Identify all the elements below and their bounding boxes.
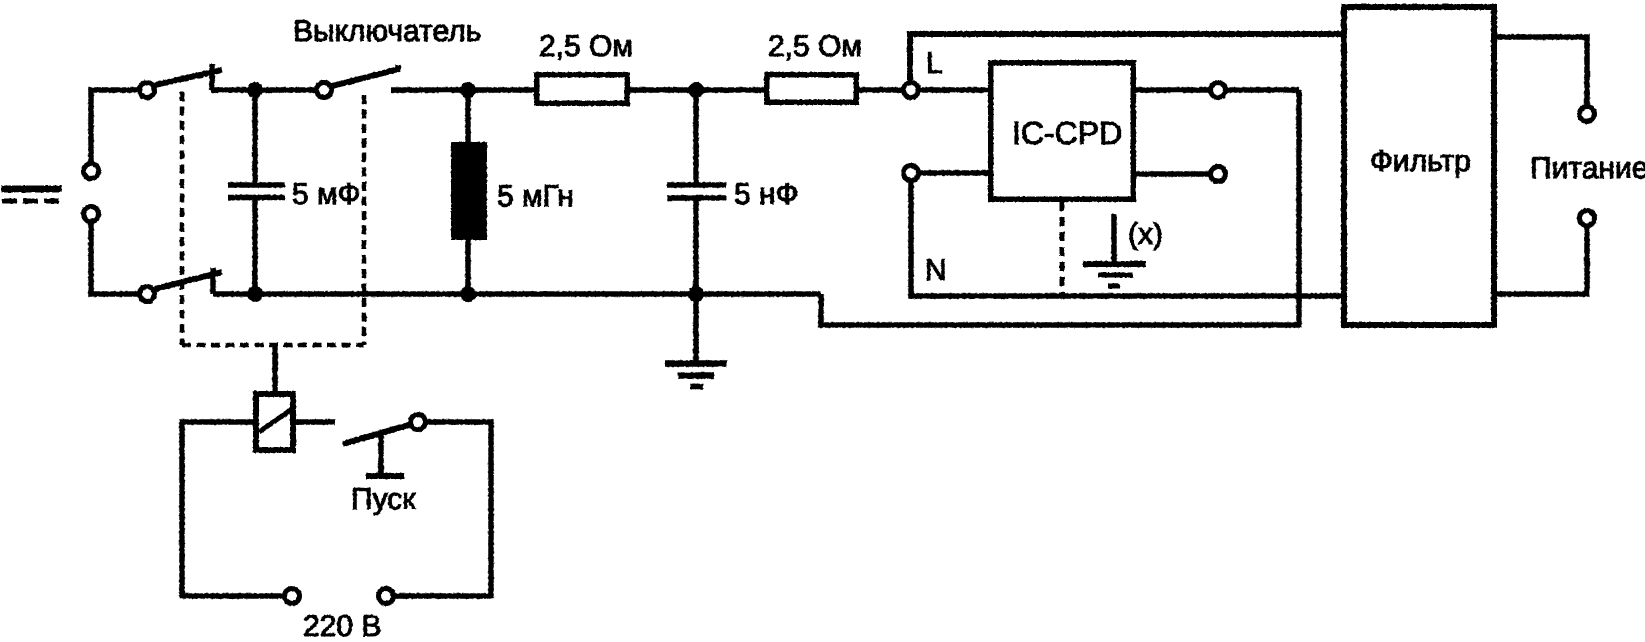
supply top terminal [84,164,99,179]
relay coil K1 diagonal [259,409,292,432]
resistor R1 2,5 Ом body [537,75,628,104]
Питание bottom terminal [1580,211,1595,226]
wire IC-CPD right top to corner [1136,87,1299,93]
switch S2 pivot [317,83,332,98]
junction node C1 top [247,82,263,98]
wire from bottom node to ground [693,294,699,361]
supply bottom terminal [84,207,99,222]
svg-text:220 В: 220 В [303,610,381,637]
switch S3 contact bar [210,268,216,294]
IC-CPD dashed line down [1060,202,1065,296]
wire node N to IC-CPD [911,170,988,176]
svg-text:Пуск: Пуск [351,483,416,516]
dashed enclosure box [182,92,364,345]
right terminal top [1211,83,1226,98]
svg-text:N: N [925,254,947,287]
switch S1 pivot [140,83,155,98]
filter block [1344,7,1494,325]
wire IC-CPD right bottom to terminal [1136,171,1218,177]
220V right terminal [379,589,394,604]
wire from supply top terminal to switch S1 [91,90,147,171]
junction node L1 top [460,82,476,98]
switch S3 pivot [140,287,155,302]
open terminal circles [84,83,1595,604]
node N terminal [904,166,919,181]
DC source symbol [1,189,62,201]
wire Пуск to right side down to 220V [386,422,491,596]
junction node L1 bottom [460,286,476,302]
relay circuit left wire [182,422,292,596]
wire from S1 to switch S2 (Выключатель) [211,87,324,93]
switch S3 blade (bottom) [155,272,222,289]
junction dots [247,82,704,302]
wire node L to IC-CPD [911,87,988,93]
pushbutton Пуск blade [343,424,412,444]
svg-text:IC-CPD: IC-CPD [1012,115,1122,151]
junction node C2 bottom [688,286,704,302]
ground symbol [665,364,727,387]
Пуск pivot terminal [411,415,426,430]
capacitor C1 5 мФ plates [228,185,285,198]
resistor R2 2,5 Ом body [767,75,857,103]
switch S1 contact bar [209,64,215,90]
inductor L1 5 мГн body [451,142,487,240]
inductor L1 top wire [465,90,471,142]
svg-text:Фильтр: Фильтр [1370,145,1471,178]
top wire from node L to filter [910,34,1344,90]
pushbutton Пуск actuator bar [366,473,404,479]
svg-text:2,5 Ом: 2,5 Ом [539,30,633,63]
N branch down and to filter [911,173,1341,296]
junction node C1 bottom [247,286,263,302]
wire capacitor C1 bottom branch [252,200,258,294]
bottom main wire [213,291,821,297]
switch S2 tip tick [395,65,401,72]
pushbutton Пуск actuator stem [378,432,384,473]
svg-text:2,5 Ом: 2,5 Ом [768,30,862,63]
wire R2 to node L [859,87,911,93]
junction node C2 top [688,82,704,98]
Питание top terminal [1580,107,1595,122]
switch S2 (Выключатель) blade [332,69,399,86]
relay circuit wire coil to Пуск [296,419,335,425]
wire dashed box to relay coil K1 [272,345,278,391]
node L terminal [904,83,919,98]
svg-text:5 нФ: 5 нФ [734,178,798,211]
capacitor C2 5 нФ plates [667,185,726,198]
relay coil K1 body [256,394,293,450]
svg-text:(x): (x) [1128,218,1163,251]
svg-text:Выключатель: Выключатель [293,15,481,48]
bottom wire step [821,90,1299,325]
right terminal bottom [1211,167,1226,182]
capacitor C2 top branch wire [693,90,699,185]
wire Питание bottom to filter [1497,218,1587,294]
switch S1 blade [155,70,222,85]
inductor L1 bottom wire [465,240,471,294]
wire R1 to node C2 [630,87,764,93]
svg-text:Питание: Питание [1530,152,1645,185]
capacitor C2 bottom branch wire [693,198,699,294]
IC-CPD block U1 [991,63,1134,200]
svg-text:5 мФ: 5 мФ [292,178,360,211]
wire from supply bottom terminal to switch S3 [91,214,147,294]
wire from S2 to resistor R1 [391,87,534,93]
ground (x) symbol [1083,214,1146,286]
220V left terminal [285,589,300,604]
wire capacitor C1 top branch [252,90,258,183]
svg-text:5 мГн: 5 мГн [497,180,574,213]
svg-text:L: L [926,47,943,80]
wire filter to Питание top [1497,37,1587,114]
